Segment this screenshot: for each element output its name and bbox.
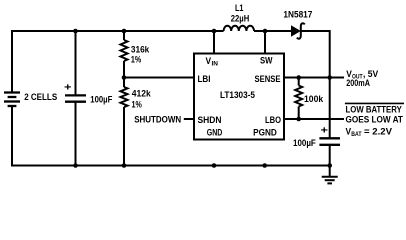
junction cap1 bottom rail (73, 163, 78, 168)
svg-text:200mA: 200mA (346, 78, 370, 89)
capacitor C1 100uF plates (65, 95, 86, 101)
op-amp U1 LT1303-5 box (194, 54, 284, 140)
svg-text:LBO: LBO (265, 115, 281, 126)
wire LBO line (284, 118, 344, 120)
svg-text:100µF: 100µF (90, 94, 112, 105)
svg-text:BAT: BAT (351, 131, 362, 138)
diode D1 schottky cathode bar (297, 23, 305, 38)
svg-text:SHUTDOWN: SHUTDOWN (134, 114, 181, 125)
junction SW top rail (263, 29, 268, 34)
svg-text:LBI: LBI (198, 74, 211, 85)
svg-text:1N5817: 1N5817 (283, 10, 312, 21)
junction battery/cap rail top (73, 29, 78, 34)
svg-text:412k: 412k (132, 89, 152, 100)
capacitor C2 100uF plates (319, 138, 340, 145)
svg-text:100k: 100k (304, 94, 324, 105)
wire top rail (battery + to inductor) (12, 30, 224, 32)
svg-text:LOW BATTERY: LOW BATTERY (346, 104, 403, 115)
battery B1 2 CELLS (4, 93, 20, 107)
junction PGND bottom rail (262, 163, 267, 168)
wire VIN pin to rail (213, 31, 215, 54)
svg-text:+: + (321, 124, 329, 136)
svg-text:100µF: 100µF (293, 138, 316, 149)
label LOW BATTERY overline (345, 102, 404, 104)
resistor R3 100k (295, 86, 302, 107)
wire SHDN input (184, 118, 194, 120)
svg-text:PGND: PGND (253, 128, 277, 139)
wire LBI feedback tap (124, 77, 194, 79)
svg-text:SENSE: SENSE (255, 74, 281, 85)
ground symbol (322, 166, 338, 184)
svg-text:GND: GND (207, 128, 223, 139)
wire bottom ground rail (11, 165, 330, 167)
junction GND bottom rail (212, 163, 217, 168)
wire left rail lower (battery -) (11, 106, 13, 166)
junction VIN top rail (212, 29, 217, 34)
svg-text:SHDN: SHDN (198, 115, 222, 126)
svg-text:SW: SW (260, 56, 273, 67)
wire inductor to diode anode (254, 30, 291, 32)
wire R2 bottom lead (123, 107, 125, 166)
wire input cap bottom lead (75, 102, 77, 166)
wire R3 top lead (298, 78, 300, 86)
svg-text:1%: 1% (131, 54, 142, 65)
junction output cap ground (327, 163, 332, 168)
resistor R2 412k (121, 87, 128, 107)
svg-text:22µH: 22µH (231, 13, 250, 24)
svg-text:GOES LOW AT: GOES LOW AT (346, 115, 404, 126)
wire R3 bottom lead (298, 107, 300, 120)
wire VOUT / SENSE line (284, 77, 344, 79)
wire diode cathode to output node, right rail down to output cap (301, 31, 330, 138)
inductor L1 coil (224, 26, 254, 31)
wire R1 to LBI node (123, 61, 125, 87)
junction LBI divider node (122, 75, 127, 80)
svg-text:= 2.2V: = 2.2V (364, 126, 393, 137)
wire input cap top lead (75, 31, 77, 95)
svg-text:LT1303-5: LT1303-5 (220, 90, 256, 101)
junction R2 bottom rail (122, 163, 127, 168)
junction R3 sense node (296, 75, 301, 80)
svg-text:1%: 1% (132, 99, 143, 110)
resistor R1 316k (121, 40, 128, 61)
diode D1 1N5817 triangle (291, 25, 301, 36)
svg-text:IN: IN (212, 61, 219, 68)
junction R1 top rail (122, 29, 127, 34)
svg-text:2 CELLS: 2 CELLS (24, 92, 57, 103)
wire R1 top lead (123, 31, 125, 40)
wire SW pin to rail (264, 31, 266, 54)
junction R3 LBO node (296, 117, 301, 122)
wire left rail upper (battery +) (11, 30, 13, 93)
svg-text:+: + (64, 81, 72, 93)
junction VOUT right rail (327, 75, 332, 80)
wire output cap bottom lead (329, 145, 331, 166)
